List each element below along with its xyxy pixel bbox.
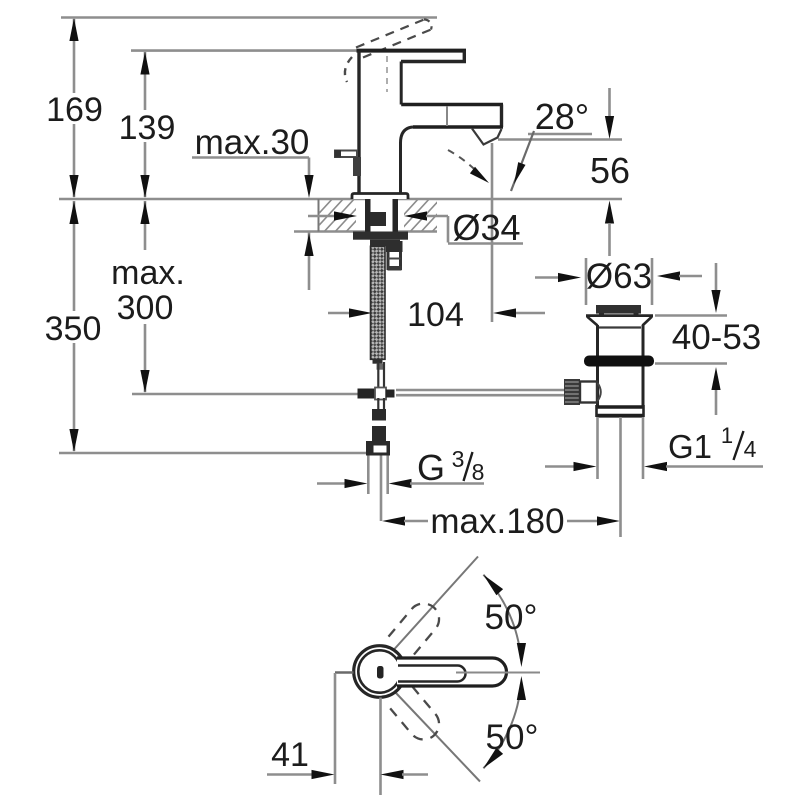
svg-text:169: 169 — [46, 91, 103, 129]
svg-text:56: 56 — [590, 150, 630, 191]
svg-text:40-53: 40-53 — [672, 318, 762, 357]
svg-text:139: 139 — [119, 109, 176, 147]
svg-text:104: 104 — [407, 296, 464, 334]
svg-text:Ø34: Ø34 — [452, 207, 520, 248]
svg-text:max.: max. — [111, 254, 185, 292]
svg-text:50°: 50° — [485, 598, 538, 637]
svg-text:300: 300 — [117, 289, 174, 327]
svg-text:Ø63: Ø63 — [586, 257, 652, 296]
svg-text:max.30: max.30 — [195, 123, 310, 162]
svg-text:G1: G1 — [668, 428, 712, 465]
svg-text:G: G — [417, 447, 445, 488]
svg-text:1: 1 — [721, 423, 733, 448]
svg-text:max.180: max.180 — [430, 502, 564, 541]
svg-text:50°: 50° — [486, 718, 539, 757]
svg-text:350: 350 — [45, 310, 102, 348]
svg-text:41: 41 — [271, 736, 309, 774]
svg-text:28°: 28° — [535, 96, 589, 137]
svg-text:8: 8 — [472, 459, 485, 485]
svg-text:4: 4 — [744, 436, 757, 462]
svg-text:3: 3 — [452, 446, 465, 472]
